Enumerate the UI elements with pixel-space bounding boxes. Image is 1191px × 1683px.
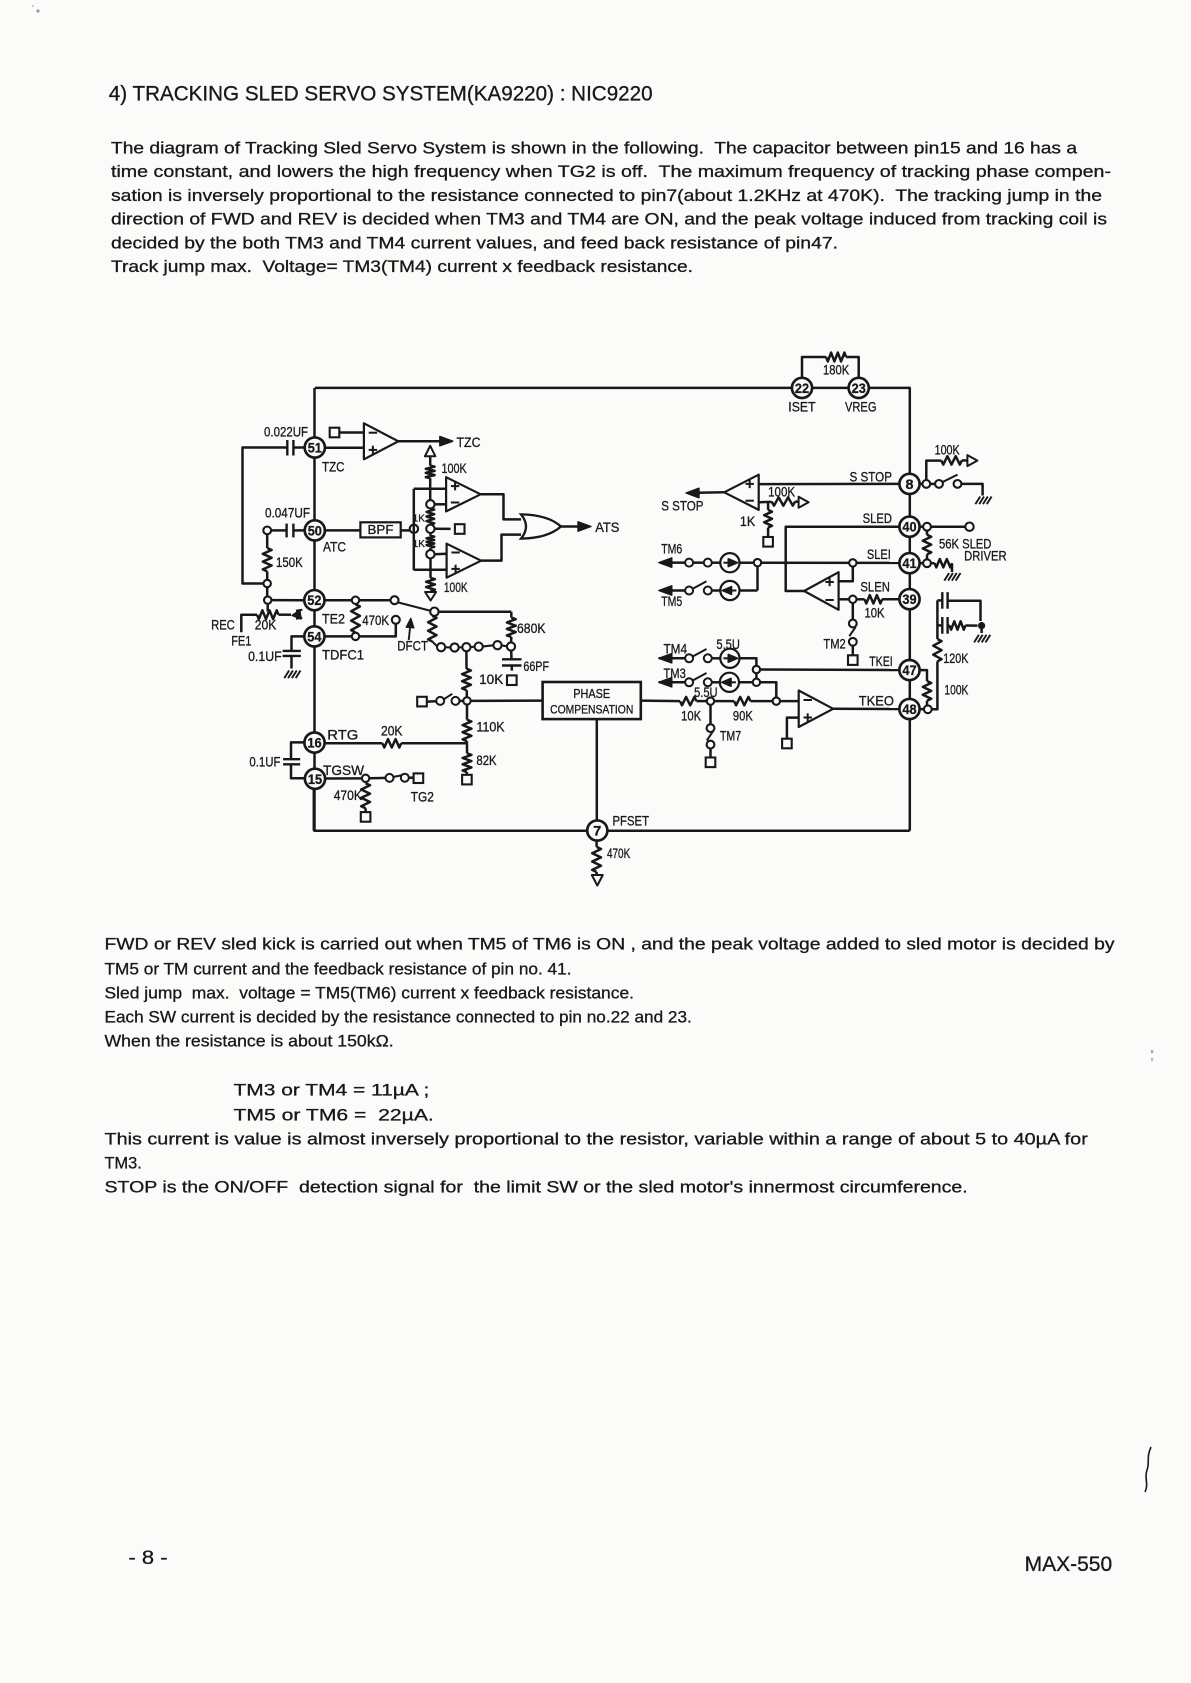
svg-text:PHASE: PHASE [573,687,610,701]
current source TM4 [720,649,739,668]
svg-text:52: 52 [307,592,321,608]
ground cap network [974,635,979,643]
contact DFCT upper [391,596,399,604]
wire ladder top [429,456,432,465]
arrow TZC output [440,436,453,446]
arrow down ladder bottom [425,592,436,601]
IC boundary box [315,387,911,390]
svg-text:When the resistance is about 1: When the resistance is about 150kΩ. [105,1033,394,1051]
wire switch to ground [961,484,982,496]
capacitor 0.1UF pin54 [292,636,305,651]
wire pin15 to node [325,777,362,780]
svg-text:48: 48 [902,701,916,717]
resistor 10K SLEN [857,598,865,601]
pin 50 ATC [305,520,325,540]
svg-text:54: 54 [307,628,321,644]
wire SLEN - input [839,598,849,601]
svg-text:REC: REC [211,617,235,633]
svg-text:Track jump max. Voltage= TM3(: Track jump max. Voltage= TM3(TM4) curren… [111,258,693,276]
wire pin54 to DFCT lower contact [325,635,352,638]
svg-text:110K: 110K [476,718,505,734]
svg-text:TM3: TM3 [664,665,686,681]
svg-text:MAX-550: MAX-550 [1025,1553,1113,1576]
svg-text:50: 50 [308,522,322,538]
terminal square ladder mid [455,524,465,534]
capacitor 66PF [510,651,513,660]
capacitor bottom right network [937,624,942,627]
node 470K bottom [352,633,359,640]
resistor 150K [266,534,269,548]
resistor 100K lower ladder [426,578,435,591]
capacitor 0.022UF [286,440,288,456]
resistor 470K TGSW [364,782,367,783]
svg-text:TGSW: TGSW [323,762,365,778]
op-amp SLEN [804,572,839,610]
svg-text:Each SW current is decided by: Each SW current is decided by the resist… [105,1009,692,1027]
node 90K TKEO [773,697,780,704]
svg-text:680K: 680K [517,620,546,636]
contact pin40 [923,523,931,531]
wire node down [266,587,269,596]
pin 52 TE2 [304,590,324,610]
block PHASE COMPENSATION [543,682,641,719]
svg-text:TM6: TM6 [661,541,682,557]
svg-text:TM3 or TM4 = 11µA ;: TM3 or TM4 = 11µA ; [234,1082,430,1100]
node TE2 junction [264,596,271,603]
capacitor top right network [937,599,942,602]
wire TM4 row [659,657,686,660]
arrow TM4 [659,654,672,664]
wire 110K to RTG line [466,741,469,743]
contact pin41 right [923,559,931,567]
svg-text:TZC: TZC [457,434,481,450]
terminal square 1K S STOP [763,537,773,547]
svg-text:10K: 10K [865,605,886,621]
op-amp S STOP comparator [724,475,759,510]
pin 51 TZC [305,437,325,457]
resistor 470K PFSET [595,841,598,847]
svg-text:SLEI: SLEI [867,546,891,562]
svg-text:FE1: FE1 [231,632,251,648]
arrow S STOP output [686,488,699,498]
wire 180K to pin23 [846,357,859,378]
wire pin51 to op-amp + input [325,446,364,449]
resistor 1K S STOP [767,502,770,510]
pin 47 TKEI [899,660,919,680]
terminal square phase comp input [417,697,427,707]
buffer triangle pin8 [962,459,967,462]
wire 120K to pin48 node [932,661,938,709]
svg-text:8: 8 [906,476,914,492]
junction dot cap network [978,622,985,629]
ground pin41 [944,573,949,581]
terminal square 470K TGSW [361,812,371,822]
arrow ATS output [578,522,591,531]
terminal circle SLED driver [965,523,973,531]
svg-text:TE2: TE2 [322,611,345,627]
svg-text:470K: 470K [334,787,363,803]
svg-text:22: 22 [795,380,809,396]
pin 22 ISET [792,378,812,398]
switch TM2 [852,603,855,619]
wire node to contact [370,777,386,780]
svg-text:The diagram of Tracking Sled S: The diagram of Tracking Sled Servo Syste… [111,140,1078,158]
switch TG2 [386,774,394,782]
wire pin40 right [920,525,923,528]
switch TM6 closed [685,559,693,567]
svg-text:180K: 180K [823,362,850,378]
wire node to phase compensation box [471,699,543,702]
svg-text:90K: 90K [733,708,753,724]
wire SLED to SLEN output [786,527,900,591]
svg-text:10K: 10K [479,671,504,687]
arrow up ladder top [425,446,436,457]
wire to TKEO - input [780,700,799,703]
svg-text:0.1UF: 0.1UF [248,648,282,664]
contact TKEI join [753,666,760,673]
svg-text:5.5U: 5.5U [716,636,740,652]
bracket REC input [241,615,257,633]
OR gate ATS [521,514,561,538]
wire node to square terminal [435,528,451,531]
svg-text:TM3.: TM3. [105,1155,142,1173]
wire upper comparator to OR gate [481,494,521,519]
resistor to ground pin41 [931,562,935,565]
wire cap top to corner [948,601,981,621]
arrow down PFSET [592,875,603,886]
wire S STOP output [697,491,724,494]
node ladder lower [426,550,434,558]
op-amp TKEO [799,691,834,728]
wire pin8 S STOP line [759,483,899,486]
switch arm DFCT [398,603,430,611]
wire pin15 down to bottom edge [313,789,316,831]
node TM6/TM5 join [754,559,761,566]
pin 16 RTG [304,733,324,753]
node TM3 join [753,679,760,686]
wire TKEO output [833,708,899,711]
wire riser 100K buffer [926,461,941,480]
resistor 110K [466,705,469,720]
ground 0.1UF pin54 [284,671,289,679]
wire to open terminal [931,525,966,528]
scan artifact speck top left [36,9,39,12]
pin 39 SLEN [899,589,919,609]
node SLEN - [849,596,856,603]
node 10K/110K junction [463,697,470,704]
svg-text:S STOP: S STOP [850,468,893,484]
svg-text:TM5 or TM current and the feed: TM5 or TM current and the feedback resis… [105,961,572,979]
arrow TM6 [659,558,672,568]
svg-text:TZC: TZC [322,459,345,475]
svg-text:TM7: TM7 [720,728,741,744]
node SLEN + join [849,559,856,566]
resistor 680K [510,612,513,618]
wire TM5 row [661,589,685,592]
resistor 10K TKEO [680,697,696,705]
svg-text:7: 7 [593,823,601,839]
arrow TM5 [659,586,672,595]
svg-text:sation is inversely proportion: sation is inversely proportional to the … [111,187,1102,205]
potentiometer 20K REC [257,610,279,619]
svg-text:TM5: TM5 [661,593,682,609]
terminal square TM2 [848,655,858,665]
pin 40 SLED [899,517,919,537]
svg-text:TG2: TG2 [411,789,434,805]
terminal square TZC - input [330,428,340,438]
svg-text:S STOP: S STOP [661,498,703,514]
pin 23 VREG [849,378,869,398]
wire TKEI line [760,668,899,671]
svg-text:BPF: BPF [368,523,394,537]
resistor 1K lower [429,533,432,536]
svg-text:100K: 100K [442,460,468,476]
svg-text:66PF: 66PF [523,658,549,674]
wire left riser to 0.022UF [243,448,288,584]
svg-text:41: 41 [902,555,916,571]
op-amp TZC comparator [364,423,399,459]
svg-text:TM2: TM2 [823,636,845,652]
svg-text:PFSET: PFSET [613,813,650,829]
svg-text:10K: 10K [681,708,702,724]
resistor 120K [933,639,941,661]
svg-text:SLEN: SLEN [860,579,890,595]
svg-text:0.1UF: 0.1UF [249,754,280,770]
wire OR output [561,525,580,528]
svg-text:5.5U: 5.5U [694,684,718,700]
wire node to pin52 [272,599,305,602]
svg-text:This current is value is almos: This current is value is almost inversel… [105,1131,1089,1149]
svg-text:SLED: SLED [863,510,892,526]
svg-text:RTG: RTG [327,727,358,743]
wire TKEO + input [787,718,799,739]
node BPF output [410,525,418,533]
node 150K bottom [264,580,271,587]
node ladder upper [426,500,434,508]
op-amp ATS lower comparator [447,544,482,578]
resistor 100K S STOP [772,497,796,505]
arrow TM3 [659,678,672,688]
svg-text:39: 39 [902,591,916,607]
switch TM7 [709,705,712,724]
pin 48 TKEO [899,699,919,719]
resistor 56K [926,531,929,535]
resistor 90K [714,700,734,703]
terminal square 82K [462,775,472,785]
svg-text:STOP is the ON/OFF detection: STOP is the ON/OFF detection signal for … [105,1179,968,1197]
svg-text:TM4: TM4 [664,641,688,657]
svg-text:20K: 20K [381,722,403,738]
capacitor 0.1UF pin16/15 [291,742,304,759]
svg-text:47: 47 [902,662,916,678]
pin 8 S STOP [899,474,919,494]
svg-text:ATC: ATC [323,539,346,555]
svg-text:0.022UF: 0.022UF [264,424,308,440]
switch phase comp input [436,697,444,705]
wire pin50 to BPF [325,529,360,532]
wire - input to 1K/100K [759,501,772,504]
pin 7 PFSET [587,820,607,840]
svg-text:100K: 100K [944,682,968,698]
switch TM5 open [685,587,693,595]
wire BPF to node [401,529,410,532]
current source TM6 [720,553,739,572]
resistor DFCT series [428,616,436,642]
wire pin47 right corner [920,670,927,681]
contact pin48 right [924,705,932,713]
wire ladder node to comparator inputs [435,503,447,506]
svg-text:TDFC1: TDFC1 [322,647,364,663]
wire pin52 to switch contact [325,599,391,602]
terminal square 66PF [507,675,517,685]
svg-text:4) TRACKING SLED SERVO SYSTEM(: 4) TRACKING SLED SERVO SYSTEM(KA9220) : … [109,82,653,105]
resistor 100K upper ladder [426,466,435,479]
wire TM3 row [659,681,686,684]
svg-text:VREG: VREG [845,398,877,414]
svg-text:51: 51 [308,440,322,456]
terminal square TG2 [414,773,424,783]
ground pin8 switch [975,497,980,505]
svg-text:15: 15 [308,771,322,787]
node 470K top [352,597,359,604]
svg-text:decided by the both TM3 and TM: decided by the both TM3 and TM4 current … [111,234,838,252]
wire RTG 20K line [325,742,383,745]
annotation arrow DFCT [409,623,411,640]
terminal square TM7 [706,758,716,768]
resistor 1K upper [427,509,435,525]
node DFCT common [430,608,438,616]
svg-text:20K: 20K [255,617,277,633]
wiper arrow 20K [266,604,269,611]
wire TM3 to 90K node [760,682,776,697]
svg-text:TKEO: TKEO [859,693,894,709]
resistor 20K RTG [382,739,401,747]
svg-text:- 8 -: - 8 - [129,1548,168,1569]
node ladder BPF level [426,525,434,533]
node TGSW [362,775,369,782]
pin 54 TDFC1 [304,626,324,646]
svg-text:ISET: ISET [788,398,816,414]
wire node to 100K [429,558,432,578]
current source TM5 [720,581,739,600]
svg-text:time constant, and lowers the: time constant, and lowers the high frequ… [111,163,1111,181]
svg-text:40: 40 [902,519,916,535]
pin 41 SLEI [899,553,919,573]
switch TM3 open [685,678,693,686]
op-amp ATS upper comparator [446,477,481,511]
svg-text:COMPENSATION: COMPENSATION [550,703,633,717]
wire SLEN + input [839,567,853,581]
wire cap network left riser [936,600,939,639]
resistor 100K 47-48 [923,681,931,701]
pin 15 TGSW [305,769,325,789]
current source TM3 [720,673,739,692]
svg-text:100K: 100K [935,442,961,458]
resistor 100K pin8 [941,456,962,464]
svg-text:1K: 1K [740,513,756,529]
svg-text:100K: 100K [444,579,468,595]
svg-text:DRIVER: DRIVER [964,548,1007,564]
resistor 82K [466,743,469,753]
resistor cap network [948,624,950,627]
wire TZC output [398,440,441,443]
svg-text:16: 16 [307,735,321,751]
node 10K/90K TKEO [707,697,714,704]
contact DFCT lower [392,616,400,624]
terminal square TKEO + [782,739,792,749]
svg-text:150K: 150K [276,554,303,570]
svg-text:TKEI: TKEI [869,653,893,669]
resistor 180K [826,353,846,362]
svg-text:470K: 470K [607,845,631,861]
resistor 470K TE2 [351,604,360,632]
wire phase comp output [641,699,680,702]
wire BPF vertical to comparators [413,489,416,570]
wire phase comp to pin7 [596,719,599,820]
wire pin22 up [802,357,826,378]
wire 100K to node [429,478,432,500]
svg-text:DFCT: DFCT [397,638,428,654]
switch TM4 open [685,654,693,662]
switch pin8 [930,483,935,486]
svg-text:82K: 82K [476,752,497,768]
buffer triangle 100K S STOP [795,500,799,503]
contact pin8 a [920,483,923,486]
svg-text:Sled jump max. voltage = TM: Sled jump max. voltage = TM5(TM6) curren… [105,985,635,1003]
scan artifact squiggle right margin [1145,1447,1151,1492]
svg-text:470K: 470K [362,612,389,628]
wire node to 680K corner [439,610,512,613]
svg-text:TM5 or TM6 = 22µA.: TM5 or TM6 = 22µA. [234,1106,434,1124]
svg-text:100K: 100K [768,484,796,500]
svg-text:23: 23 [852,380,866,396]
svg-text:ATS: ATS [595,519,619,535]
scan artifact colon right margin [1151,1050,1153,1053]
svg-text:direction of FWD and REV is de: direction of FWD and REV is decided when… [111,211,1107,229]
wire lower comparator to OR gate [481,535,521,561]
capacitor 0.047UF [263,527,271,535]
switch contact chain DFCT [432,642,437,647]
wire SLEI line [661,561,899,564]
svg-text:0.047UF: 0.047UF [265,505,310,521]
block BPF [360,522,400,537]
svg-text:FWD or REV sled kick is carrie: FWD or REV sled kick is carried out when… [105,936,1116,954]
resistor 10K DFCT [465,651,468,669]
svg-text:120K: 120K [943,650,969,666]
